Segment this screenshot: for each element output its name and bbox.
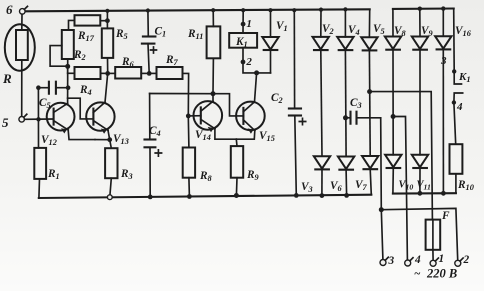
node A <box>65 64 70 69</box>
svg-text:F: F <box>441 210 450 222</box>
transistor V14 <box>194 101 223 132</box>
node R17/R5 <box>105 18 110 23</box>
wire V12 collector to V13 base jog <box>68 98 94 119</box>
diode V1 <box>270 10 272 37</box>
diode V6 <box>338 157 354 196</box>
fuse F <box>426 220 441 250</box>
wire terminal6 to R <box>21 14 23 30</box>
svg-text:1: 1 <box>246 18 252 30</box>
wire R4 to node B <box>101 72 108 74</box>
K1 terminal 2 <box>241 60 246 65</box>
diode V3 <box>314 156 330 195</box>
wire V9 to V11 <box>419 50 421 155</box>
svg-text:2: 2 <box>245 56 252 68</box>
svg-text:6: 6 <box>6 2 13 17</box>
resistor R5 <box>102 28 113 58</box>
capacitor C3 <box>346 117 351 119</box>
terminal 4 <box>405 260 411 266</box>
photoresistor R envelope <box>5 24 35 70</box>
wire V14 emitter down <box>215 129 236 140</box>
capacitor C5 <box>38 87 49 89</box>
wire V4 to V6 <box>344 50 347 156</box>
top rail right segment <box>393 7 454 9</box>
wire V8 to V10 <box>392 50 394 155</box>
contact K1 line from rail <box>453 9 456 72</box>
wire terminal 5 to V12 base <box>25 118 54 120</box>
resistor R17 <box>75 15 101 25</box>
wire R6 to node C <box>141 72 149 74</box>
node D (R11/V14 collector/V15 base) <box>211 91 216 96</box>
node C3 left <box>343 115 348 120</box>
resistor R7 <box>157 67 183 79</box>
svg-text:4: 4 <box>456 101 463 113</box>
terminal 1 <box>430 260 436 266</box>
wire node C to R7 <box>149 72 156 74</box>
wire V13 emitter to R3 node <box>108 130 110 139</box>
wire node A down to V12 collector <box>67 66 69 103</box>
wire C3 to terminal 3 <box>381 118 383 259</box>
K1 terminal 1 <box>241 22 246 27</box>
svg-text:2: 2 <box>463 254 470 266</box>
terminal 6 <box>20 9 26 15</box>
resistor R10 <box>450 144 463 174</box>
top rail left segment <box>25 9 370 11</box>
wire R11 bottom to node D <box>212 58 214 93</box>
bottom right bus <box>393 192 456 195</box>
terminal 3 of contact <box>452 69 456 73</box>
wire emitters mid to R9 <box>235 139 238 146</box>
wire V15 emitter down <box>236 131 255 140</box>
relay coil K1 <box>229 33 257 48</box>
node terminal2 wire <box>379 207 384 212</box>
transistor V15 <box>236 102 265 134</box>
terminal 4 of contact <box>452 100 456 104</box>
wire V14 base from R7 <box>188 115 201 117</box>
svg-text:~: ~ <box>414 268 421 280</box>
wire R17 left to R2 top <box>69 20 75 30</box>
resistor R4 <box>75 67 101 79</box>
node V15 collector <box>254 70 259 75</box>
wire F tap to fuse <box>370 92 433 220</box>
diode V2 <box>313 8 329 51</box>
wire V15 collector up to K1/V1 node <box>255 73 257 102</box>
resistor R3 <box>105 148 117 178</box>
wire V5 to V7 <box>368 50 371 156</box>
wire emitters joined <box>95 139 110 141</box>
wire R7 right down to V14 base node <box>183 73 189 116</box>
diode V4 <box>337 7 353 50</box>
wire K1 top to rail <box>242 10 244 33</box>
diode V10 <box>385 155 401 194</box>
capacitor C2 <box>293 10 295 108</box>
wire node D jog to V15 base <box>213 94 243 116</box>
capacitor C1 <box>147 10 149 36</box>
node F tap <box>367 89 372 94</box>
wire V2 to V3 <box>321 50 322 156</box>
wire to terminal 2 <box>381 208 457 259</box>
transistor V13 <box>86 102 114 134</box>
hook wire R2 left to node A <box>50 46 68 67</box>
transistor V12 <box>47 103 75 134</box>
wire R3 to rail with ring node <box>110 178 111 194</box>
wire node B to R6 <box>108 72 116 74</box>
wire horizontal from C4 branch to node D <box>150 93 213 95</box>
wire contact to R10 <box>454 103 456 145</box>
node terminal4 tap <box>391 114 396 119</box>
wire R3 top <box>110 140 112 149</box>
wire V16 to bus <box>442 49 444 193</box>
diode V16 <box>435 6 451 49</box>
wire node A to R4 <box>68 72 75 74</box>
resistor R8 <box>183 148 195 178</box>
wire V14 collector to node D <box>212 94 214 102</box>
resistor R11 <box>207 26 221 58</box>
wire V13 collector to node B <box>105 73 108 102</box>
bottom rail <box>39 195 372 198</box>
wire V12 emitter <box>68 130 95 140</box>
wire R1 to rail <box>38 179 41 198</box>
node C (C1/R6/R7) <box>147 71 152 76</box>
node terminal5/R1 <box>36 117 40 121</box>
terminal 5 <box>19 117 25 123</box>
svg-text:1: 1 <box>439 253 445 265</box>
contact K1 <box>454 71 461 84</box>
resistor R9 <box>231 146 243 178</box>
wire R5 bottom to node B <box>107 58 109 74</box>
node B <box>105 71 110 76</box>
wire terminal4 tap <box>393 117 407 260</box>
diode V7 <box>362 156 378 195</box>
resistor R1 <box>34 148 46 179</box>
wire fuse to terminal 1 <box>432 250 434 260</box>
C1 plus <box>151 47 157 53</box>
svg-text:4: 4 <box>414 254 421 266</box>
svg-text:220 В: 220 В <box>426 267 457 281</box>
terminal 3 <box>380 260 386 266</box>
diode V5 <box>361 9 377 50</box>
wire R to terminal 5 <box>21 60 23 117</box>
photoresistor R body <box>16 30 28 60</box>
resistor R6 <box>115 67 141 79</box>
terminal 2 <box>455 260 461 266</box>
wire R17 right to rail and R5 <box>100 20 107 22</box>
diode V9 <box>412 7 428 50</box>
resistor R2 <box>62 30 74 59</box>
svg-text:5: 5 <box>2 115 9 130</box>
wire R2 bottom to node A <box>67 59 69 73</box>
diode V8 <box>385 9 401 50</box>
capacitor C4 <box>149 94 151 140</box>
svg-text:R: R <box>2 71 12 86</box>
svg-text:3: 3 <box>440 55 447 67</box>
diode V11 <box>412 155 428 194</box>
wire R10 to bus <box>455 174 457 193</box>
wire K1 bottom <box>243 48 271 73</box>
svg-text:3: 3 <box>388 255 395 267</box>
wire C5 left down through node5 to R1 <box>37 88 39 148</box>
